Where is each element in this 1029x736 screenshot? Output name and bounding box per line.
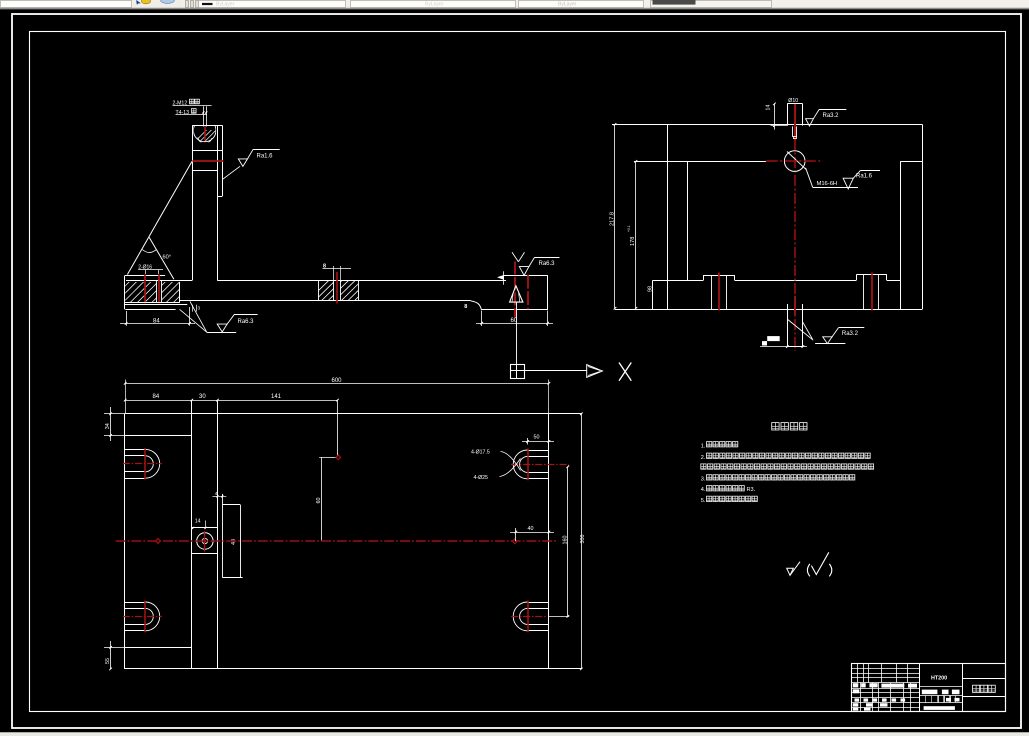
svg-text:300: 300 xyxy=(580,535,586,544)
svg-text:ByLayer: ByLayer xyxy=(425,2,444,8)
view1 drill note extension lines xyxy=(203,106,205,126)
svg-text:160: 160 xyxy=(563,536,569,545)
toolbar background strip xyxy=(0,0,1029,8)
view1 Ra6.3 pad symbol xyxy=(512,252,518,261)
view3 boss around hole xyxy=(222,494,224,577)
svg-text:Ra3.2: Ra3.2 xyxy=(823,113,840,119)
view2 Ra3.2 top symbol xyxy=(806,119,814,126)
ucs box xyxy=(511,365,525,379)
svg-text:8: 8 xyxy=(464,304,467,310)
svg-text:60°: 60° xyxy=(163,255,171,261)
view1 base left edge xyxy=(124,276,126,310)
view2 base top line xyxy=(653,280,704,282)
title block left grid columns xyxy=(857,664,859,683)
view3 step line 34 xyxy=(124,435,191,437)
svg-text:2.: 2. xyxy=(701,455,706,461)
view1 right pad top xyxy=(504,275,548,277)
tech requirements title xyxy=(772,423,779,430)
toolbar combo plotstyle xyxy=(519,1,644,8)
view2 shoulder line left xyxy=(634,161,766,163)
toolbar icon light blue fragment xyxy=(161,0,175,3)
svg-text:4-Ø25: 4-Ø25 xyxy=(474,475,489,481)
svg-text:ByLayer: ByLayer xyxy=(558,2,577,8)
view2 bore circle xyxy=(784,151,805,172)
view1 mid dim 8 xyxy=(333,266,335,280)
view3 hole square top xyxy=(192,527,218,529)
view3 main red centerline xyxy=(116,540,556,542)
title block right column rows xyxy=(963,678,1005,680)
view1 Ra6.3 leader bottom xyxy=(180,309,207,332)
view2 base bottom edge xyxy=(615,309,922,311)
view2 left inner wall xyxy=(687,161,689,280)
toolbar grip separators xyxy=(186,1,189,8)
view1 column bore red centerline xyxy=(204,126,206,140)
view3 slot top-left xyxy=(124,449,145,451)
view1 column top edge xyxy=(192,125,222,127)
view2 red solid segment bottom pin xyxy=(794,296,796,315)
view3 dim 600 xyxy=(125,383,549,385)
svg-text:178: 178 xyxy=(630,237,636,246)
view3 dim 55 left xyxy=(104,647,124,649)
roughness checkmark parenthesized xyxy=(807,564,810,577)
view2 boss1 hole walls xyxy=(711,275,713,309)
view3 slot bottom-left xyxy=(124,602,145,604)
svg-text:Ra6.3: Ra6.3 xyxy=(539,261,556,267)
view2 main red vertical centerline xyxy=(794,103,796,351)
title block main verticals xyxy=(919,664,921,712)
ucs X letter xyxy=(619,363,631,381)
view2 base left end xyxy=(652,280,654,309)
svg-text:5.: 5. xyxy=(701,498,706,504)
view3 inner vertical a xyxy=(191,400,193,669)
svg-text:60: 60 xyxy=(511,318,518,324)
toolbar left white field xyxy=(1,1,132,8)
svg-text:34: 34 xyxy=(105,423,111,429)
svg-text:HT200: HT200 xyxy=(931,675,947,681)
view2 dim 178 xyxy=(635,161,637,308)
view3 dim 4 xyxy=(212,496,226,498)
view2 taper symbol blocks xyxy=(762,341,767,345)
view2 red cross horizontal xyxy=(766,160,823,162)
view2 boss top rect xyxy=(787,104,789,126)
view1 section arrow triangle xyxy=(510,286,523,302)
svg-text:Ra1.6: Ra1.6 xyxy=(856,174,873,180)
view1 base hole walls xyxy=(156,281,158,303)
svg-text:98: 98 xyxy=(648,286,654,292)
svg-text:4-Ø17.5: 4-Ø17.5 xyxy=(471,450,490,456)
svg-text:1.: 1. xyxy=(701,443,706,449)
svg-text:14: 14 xyxy=(195,519,201,525)
ucs x axis arrow xyxy=(524,370,587,372)
view1 column step xyxy=(217,196,222,198)
view1 Ra1.6 symbol xyxy=(238,159,247,167)
view1 pad tick xyxy=(503,271,505,285)
view2 Ra3.2 bottom symbol xyxy=(815,343,845,345)
bottom status strip xyxy=(0,733,1029,736)
view3 dim 34 left xyxy=(104,413,124,415)
svg-text:217.8: 217.8 xyxy=(609,212,615,226)
view3 dim 14 xyxy=(192,527,194,529)
view1 mid hole walls xyxy=(333,280,335,301)
view3 leader 60 xyxy=(319,457,337,459)
tech requirements line3 xyxy=(701,464,706,469)
view2 left outer wall xyxy=(667,124,669,309)
view3 slot bottom-right xyxy=(528,602,549,604)
view2 boss1 xyxy=(703,275,705,280)
view1 base top edge xyxy=(125,275,166,277)
toolbar button panel xyxy=(133,0,183,7)
view1 section line to ucs xyxy=(516,302,518,364)
view1 mid hole red centerline xyxy=(336,272,338,304)
svg-text:4.: 4. xyxy=(701,487,706,493)
view1 column outer right edge xyxy=(222,125,224,196)
view1 mid hatch block xyxy=(307,281,381,302)
svg-text:600: 600 xyxy=(332,378,343,384)
view1 column cap lower line xyxy=(192,170,217,172)
svg-text:60: 60 xyxy=(316,498,322,504)
view1 rib angle arc xyxy=(142,250,156,253)
svg-text:3: 3 xyxy=(198,306,201,311)
view1 base bottom lines xyxy=(125,302,180,304)
view2 thread callout leader xyxy=(806,168,813,188)
toolbar bottom edge xyxy=(0,8,1029,10)
view1 base red hole centerlines xyxy=(144,274,146,303)
view2 Ra1.6 symbol xyxy=(843,178,853,189)
view1 plate bottom line xyxy=(179,300,471,302)
view1 red line pad hole xyxy=(527,275,529,310)
svg-text:Ra3.2: Ra3.2 xyxy=(842,331,859,337)
view1 plate top line xyxy=(126,280,192,282)
view2 boss dim 14 xyxy=(774,104,776,130)
view1 column red face line xyxy=(192,160,223,162)
view2 shoulder line right xyxy=(900,161,922,163)
view3 red diamond left xyxy=(156,538,161,543)
title block filled cells row3 xyxy=(855,698,860,701)
view3 dim 40 xyxy=(515,528,517,541)
view1 base hatch block xyxy=(100,282,201,304)
view2 boss2 xyxy=(856,275,858,280)
view2 boss1 red centerline xyxy=(718,273,720,311)
view1 red line section xyxy=(514,262,516,319)
svg-text:ByLayer: ByLayer xyxy=(216,2,235,8)
toolbar combo linetype xyxy=(199,1,346,8)
svg-text:8: 8 xyxy=(323,264,326,270)
svg-text:55: 55 xyxy=(105,658,111,664)
svg-text:40: 40 xyxy=(528,526,534,532)
svg-text:Ra6.3: Ra6.3 xyxy=(238,319,255,325)
view1 column cap line xyxy=(192,150,222,152)
view3 center hole xyxy=(197,533,213,549)
svg-text:84: 84 xyxy=(153,318,160,324)
view3 hole square bottom xyxy=(192,553,218,555)
view1 Ra1.6 leader xyxy=(223,166,240,179)
svg-text:Ra1.6: Ra1.6 xyxy=(257,154,274,160)
title block left grid rows xyxy=(851,668,919,670)
view3 hole red vertical xyxy=(204,531,206,552)
view3 red node diamond xyxy=(336,455,341,460)
view2 top edge xyxy=(612,124,922,126)
view3 step line 55 xyxy=(124,647,191,649)
view2 right outer wall xyxy=(922,124,924,309)
view1 column inner right edge xyxy=(217,125,219,280)
view3 slot dim 50 xyxy=(527,438,529,445)
view2 bottom pin xyxy=(787,304,789,347)
view2 red solid segment top pin xyxy=(794,104,796,141)
title block filled cells row2 xyxy=(853,689,860,693)
svg-text:84: 84 xyxy=(153,394,160,400)
view3 dim row 84 30 141 xyxy=(125,400,337,402)
toolbar icon yellow fragment xyxy=(141,0,150,4)
title block filled cells row4 xyxy=(853,703,859,706)
svg-text:M16-6H: M16-6H xyxy=(817,181,838,187)
view3 slot top-right xyxy=(528,450,549,452)
view2 pin xyxy=(792,126,794,136)
view3 extension line 141 with node xyxy=(337,400,339,457)
view1 base hatch right edge xyxy=(179,282,181,303)
toolbar combo color bylayer dark text xyxy=(651,1,772,8)
svg-text:30: 30 xyxy=(199,394,206,400)
svg-text:50: 50 xyxy=(534,434,540,440)
view2 boss2 red centerline xyxy=(871,273,873,311)
svg-text:14: 14 xyxy=(765,105,771,111)
svg-text:Ø10: Ø10 xyxy=(788,98,798,104)
view1 rib diagonal xyxy=(127,161,192,274)
view3 inner vertical b xyxy=(217,400,219,669)
svg-text:141: 141 xyxy=(271,394,282,400)
view2 bore diagonal xyxy=(787,152,806,170)
view1 small dim 3 xyxy=(192,305,194,312)
title block filled cells row1 xyxy=(853,683,859,687)
roughness checkmark small xyxy=(787,568,794,575)
view2 boss2 hole walls xyxy=(863,275,865,309)
title block middle cell rows xyxy=(919,686,962,688)
view3 dim 160 xyxy=(567,467,569,617)
view2 dim 217.8 xyxy=(614,124,616,308)
title block part name jiajuti xyxy=(973,685,980,692)
view1 datum solid arrow xyxy=(497,275,504,280)
view3 dim 300 xyxy=(581,414,583,669)
view1 rib second diagonal xyxy=(149,237,174,279)
view1 dim 84 xyxy=(126,311,128,326)
view1 mid hatch boundaries xyxy=(318,280,320,301)
view1 plate bottom step xyxy=(471,301,481,309)
title block filled cells bottom row xyxy=(853,708,859,711)
svg-text:4: 4 xyxy=(215,491,218,497)
view2 bottom pin taper diagonals xyxy=(788,320,813,341)
view3 red diamond right xyxy=(512,539,517,544)
view1 Ra6.3 symbol bottom xyxy=(207,332,236,334)
view3 outline xyxy=(124,413,581,415)
title block outer rect xyxy=(852,664,1006,712)
svg-text:48: 48 xyxy=(231,539,237,545)
title block middle cell columns xyxy=(938,696,940,703)
toolbar combo lineweight xyxy=(351,1,516,8)
view2 bottom pin dim line xyxy=(760,346,807,348)
toolbar icon blue cursor fragment xyxy=(136,0,141,5)
view1 column left edge xyxy=(192,125,194,280)
view1 dim 60 right xyxy=(481,311,483,327)
svg-text:R3.: R3. xyxy=(747,487,756,493)
svg-text:3.: 3. xyxy=(701,476,706,482)
view2 right inner wall xyxy=(900,161,902,309)
svg-text:+0.1: +0.1 xyxy=(627,225,631,232)
view1 right edge xyxy=(547,276,549,310)
